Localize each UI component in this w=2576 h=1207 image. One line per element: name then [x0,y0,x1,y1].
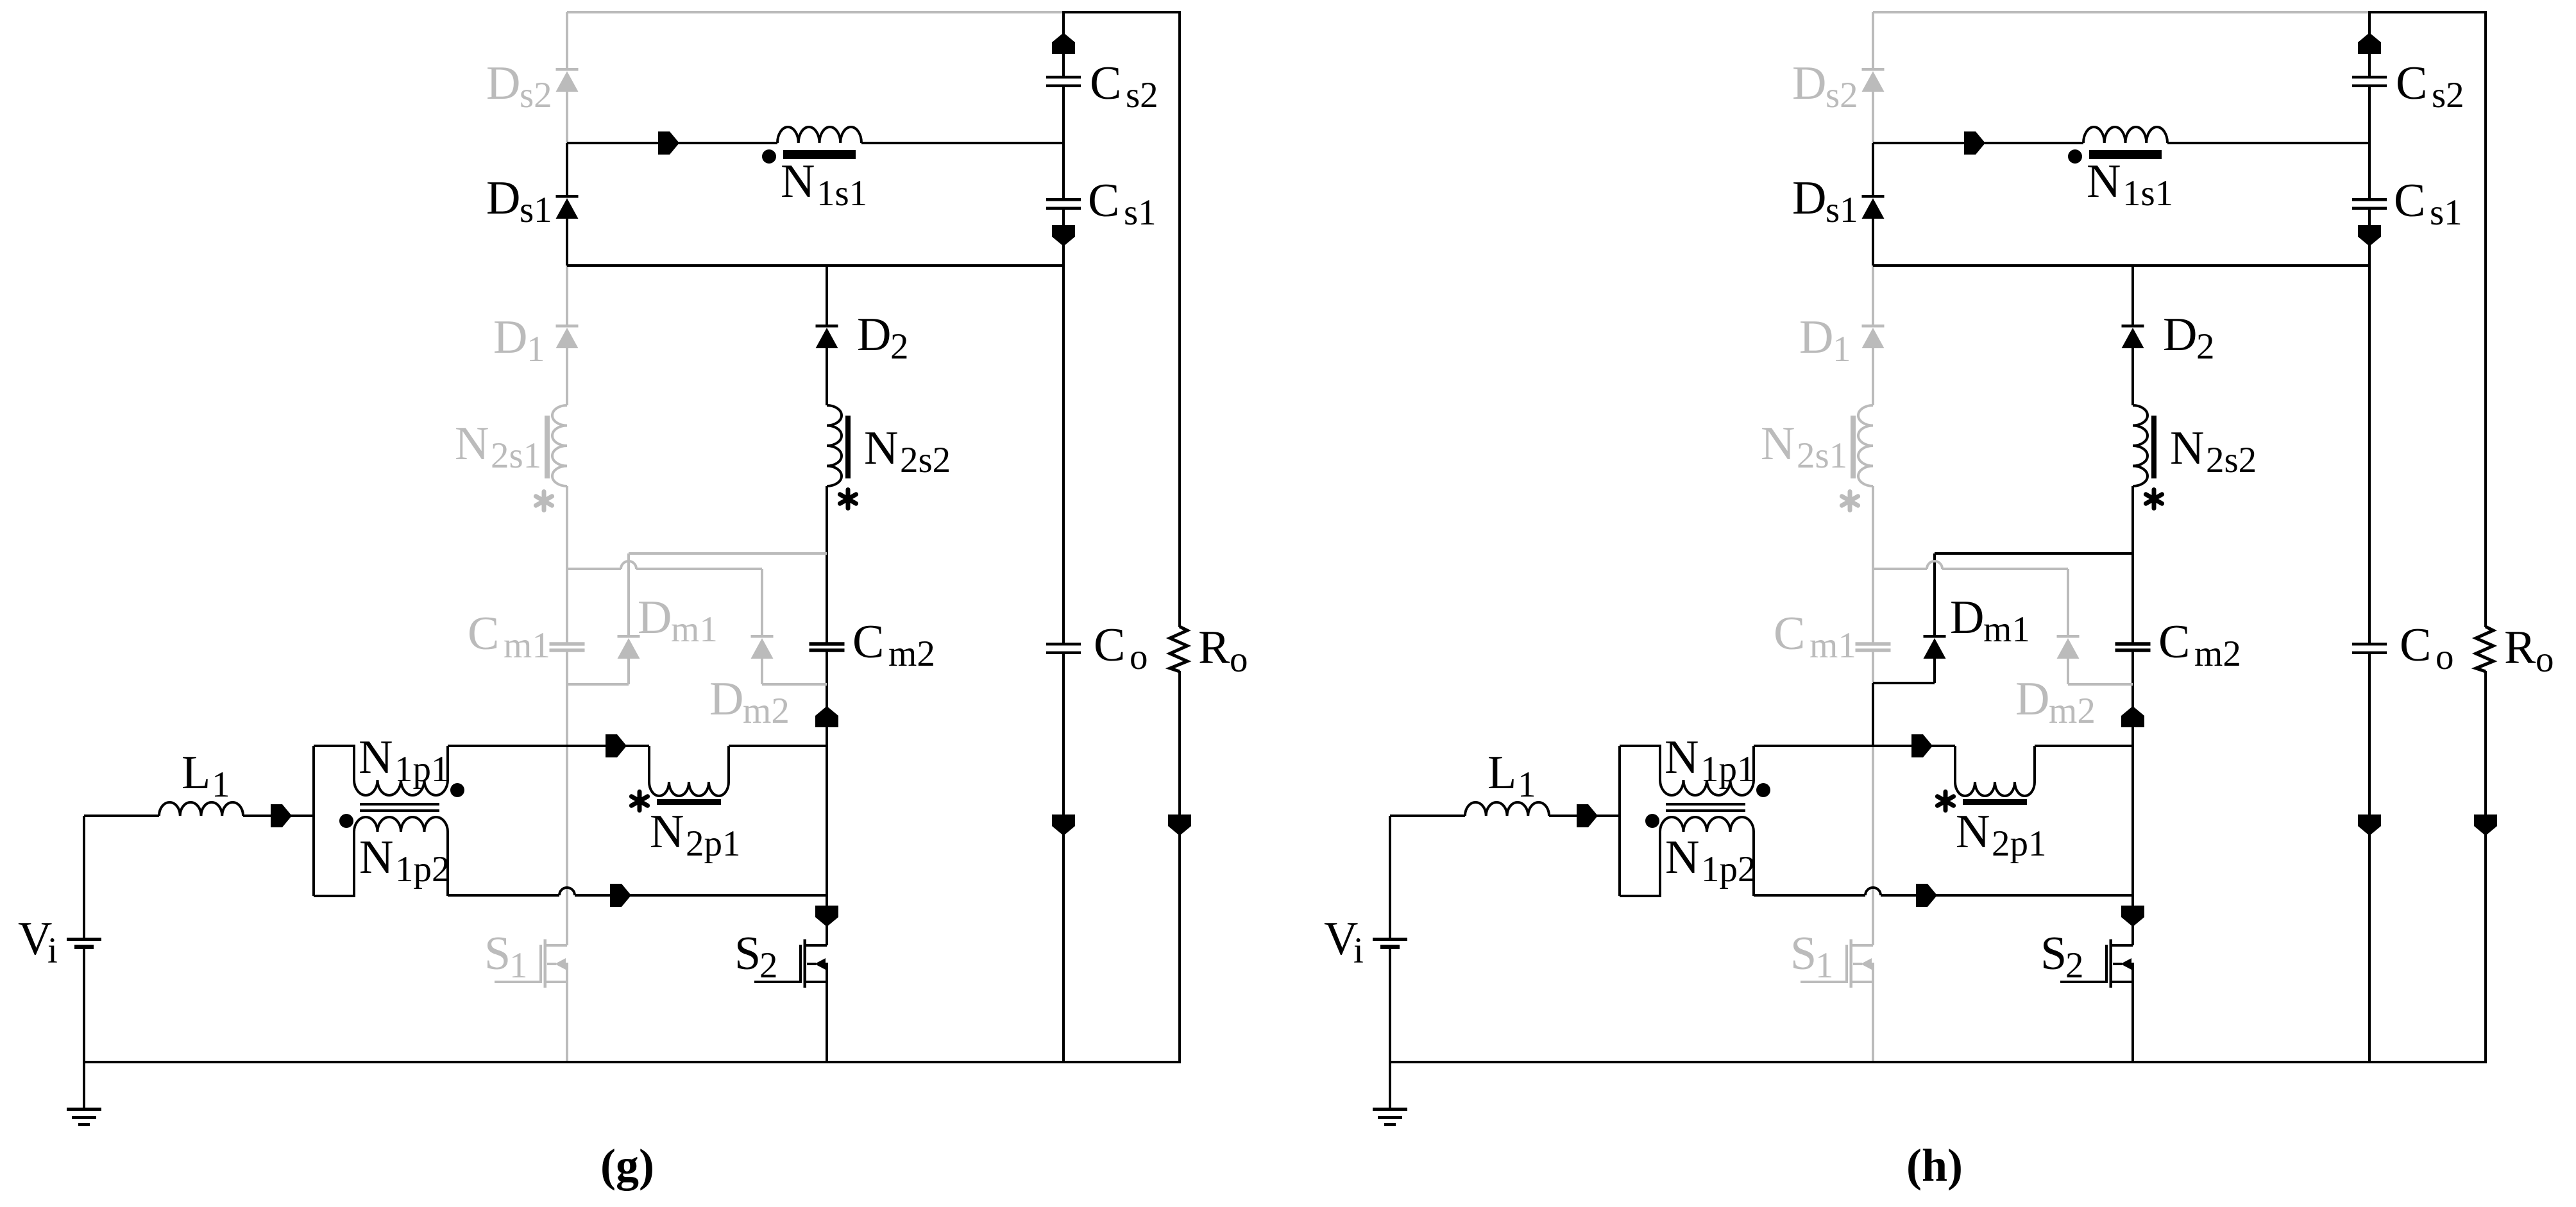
svg-text:D: D [1792,172,1826,224]
label Cs2 (g) [1090,57,1158,115]
polarity star N2s2 (g) [840,490,856,509]
wire Co to bottom rail (g) [1062,654,1065,1062]
wire D2 to N2s2 (g) [826,348,828,405]
label Co (g) [1094,619,1148,677]
svg-text:D: D [1792,57,1826,110]
wire Dm1 top link (g) [629,552,827,555]
label D1 (g) [493,311,545,369]
wire to ground (h) [1389,1062,1391,1108]
wire Dm1 top link (h) [1935,552,2133,555]
diode Dm1 (g) [618,635,640,659]
wire load column upper (h) [2484,12,2487,627]
svg-text:m1: m1 [1983,609,2030,650]
wire Vi positive (g) [83,816,85,938]
wire secondary top (h) [1873,142,2083,144]
label N1p2 (h) [1665,831,1756,890]
wire Ds1 anode (g) [566,219,568,266]
arrow right on primary top (g) [606,734,627,757]
wire top rail right (g) [1062,11,1181,13]
wire bottom rail (h) [1390,1061,2487,1063]
caption (h) [1906,1140,1963,1191]
svg-text:C: C [1088,174,1119,227]
label N2p1 (h) [1956,806,2047,864]
transformer core (g) [360,803,439,812]
dot N1s1 (h) [2068,149,2082,164]
wire secondary bottom (g) [567,264,1063,267]
wire N2s2 to Cm2 (g) [826,486,828,643]
diode Ds1 (h) [1862,195,1885,219]
svg-text:m1: m1 [1809,625,1856,666]
wire Dm2 anode (h) [2067,659,2069,684]
winding N2p1 (h) [1955,746,2035,805]
diode Ds2 (h) [1862,68,1885,92]
svg-text:i: i [47,931,58,971]
arrow down above S2 (h) [2121,906,2144,927]
svg-text:(g): (g) [600,1140,654,1191]
capacitor Cs1 (g) [1046,198,1081,210]
winding N2s1 (g) [545,405,567,486]
label N1p2 (g) [359,831,450,890]
arrow up into top rail (g) [1052,33,1075,54]
inductor L1 (h) [1465,802,1549,816]
winding N1p1 (h) [1620,746,1754,795]
polarity star N2p1 (g) [631,792,647,811]
svg-text:s1: s1 [520,190,552,230]
diode Ds2 (g) [556,68,579,92]
label L1 (g) [182,747,230,805]
svg-text:2s1: 2s1 [491,435,541,476]
diode D2 (g) [816,325,838,348]
svg-text:N: N [781,155,815,208]
wire Dm1 anode (g) [627,659,630,684]
arrow right into transformer (g) [271,804,292,827]
dot N1p1 (g) [450,783,464,797]
label Dm2 (g) [709,673,790,731]
wire D1 to N2s1 (h) [1872,348,1874,405]
wire Vi positive (h) [1389,816,1391,938]
label Cm1 (g) [468,607,550,666]
wire node B to S2 drain (h) [2131,746,2134,945]
wire S2 source to bottom rail (h) [2131,982,2134,1062]
label Ro (g) [1198,621,1248,680]
label D2 (h) [2163,308,2215,367]
dot N1p1 (h) [1756,783,1770,797]
label Dm1 (h) [1950,591,2030,650]
winding N2s2 (h) [2133,405,2157,486]
svg-text:s1: s1 [2430,192,2462,233]
wire N1s1 to Cs node (h) [2167,142,2369,144]
winding N2s2 (g) [827,405,851,486]
svg-text:C: C [1094,619,1125,671]
svg-text:s1: s1 [1826,190,1858,230]
label N1p1 (g) [359,731,450,789]
diode Dm1 (h) [1924,635,1946,659]
arrow up above node B (h) [2121,706,2144,727]
svg-text:D: D [493,311,527,364]
wire N2s1 to Cm1 (g) [566,486,568,643]
svg-text:C: C [2394,174,2425,227]
arrow right on secondary top (g) [658,131,679,155]
svg-text:m2: m2 [888,634,935,674]
svg-text:S: S [734,927,761,980]
svg-text:1: 1 [1833,329,1851,369]
svg-text:s2: s2 [520,75,552,115]
wire D2 cathode (g) [826,266,828,325]
dot N1s1 (g) [762,149,776,164]
transistor S2 (g) [754,940,827,988]
wire Ds2 to node A (h) [1872,92,1874,143]
wire node A to Ds1 (g) [566,143,568,195]
label N1p1 (h) [1665,731,1756,789]
label S2 (h) [2040,927,2084,986]
polarity star N2s2 (h) [2146,490,2162,509]
wire Cs column mid (g) [1062,87,1065,199]
svg-text:s2: s2 [2432,75,2464,115]
label D2 (g) [857,308,909,367]
svg-text:N: N [359,831,393,884]
wire N2s1 to Cm1 (h) [1872,486,1874,643]
arrow down on load column (h) [2474,815,2497,836]
wire clamp rail (h) [1873,561,2068,569]
wire input node (h) [1390,815,1465,817]
winding N2s1 (h) [1851,405,1873,486]
wire input node (g) [84,815,159,817]
label Cm2 (h) [2158,616,2241,674]
svg-text:S: S [1790,927,1817,980]
label D1 (h) [1799,311,1851,369]
svg-text:m2: m2 [743,691,790,731]
label Dm2 (h) [2015,673,2096,731]
capacitor Cm2 (h) [2115,642,2151,652]
wire Dm2 cathode (g) [761,569,763,635]
svg-text:S: S [2040,927,2067,980]
wire N2s2 to Cm2 (h) [2131,486,2134,643]
label N2s2 (h) [2170,422,2257,480]
svg-text:1p2: 1p2 [1701,849,1756,890]
wire N1p1 to N2p1 (g) [448,745,649,747]
wire Cm1 to S1 drain (g) [566,651,568,945]
svg-text:C: C [2400,619,2431,671]
wire Cs column lower (g) [1062,210,1065,643]
label Ds2 (g) [486,57,552,115]
wire load column upper (g) [1178,12,1181,627]
wire Cm1 to S1 drain (h) [1872,651,1874,945]
svg-text:o: o [2536,639,2554,680]
label Ds1 (g) [486,172,552,230]
wire bottom rail (g) [84,1061,1181,1063]
arrow down above output node (g) [1052,815,1075,836]
arrow down above S2 (g) [815,906,838,927]
label Cs2 (h) [2396,57,2464,115]
label Ds1 (h) [1792,172,1858,230]
wire secondary top (g) [567,142,777,144]
svg-text:2p1: 2p1 [686,823,741,864]
svg-text:m1: m1 [671,609,718,650]
svg-text:D: D [1950,591,1984,644]
wire node B to S2 drain (g) [826,746,828,945]
diode D1 (g) [556,325,579,348]
svg-text:2: 2 [759,945,778,986]
arrow right on primary top (h) [1911,734,1933,757]
label N2s1 (g) [455,418,541,476]
svg-text:1: 1 [212,764,230,805]
capacitor Co (g) [1046,643,1081,654]
svg-text:C: C [852,616,884,668]
label Dm1 (g) [638,591,718,650]
wire S2 source to bottom rail (g) [826,982,828,1062]
arrow right on primary bottom (g) [610,884,631,907]
wire load column lower (g) [1178,671,1181,1062]
svg-text:C: C [2158,616,2190,668]
svg-text:C: C [468,607,499,660]
svg-text:D: D [1799,311,1833,364]
wire Dm1 cathode (g) [627,553,630,635]
inductor L1 (g) [159,802,243,816]
dot N1p2 (g) [339,814,353,828]
polarity star N2p1 (h) [1937,792,1953,811]
wire D2 cathode (h) [2131,266,2134,325]
label N1s1 (h) [2087,155,2173,214]
label Cm1 (h) [1774,607,1856,666]
svg-text:C: C [2396,57,2427,110]
wire Dm2 anode to Cm2 (h) [2068,683,2133,686]
label Co (h) [2400,619,2454,677]
svg-text:1: 1 [1518,764,1536,805]
svg-text:o: o [1230,639,1248,680]
svg-text:R: R [1198,621,1230,674]
wire Cs column upper (g) [1062,12,1065,76]
label Vi (g) [18,913,58,971]
winding N1p2 (h) [1620,817,1754,896]
svg-text:R: R [2504,621,2536,674]
svg-text:i: i [1353,931,1364,971]
wire Dm2 anode (g) [761,659,763,684]
arrow right on primary bottom (h) [1916,884,1937,907]
wire Dm1 cathode (h) [1933,553,1936,635]
wire top rail left (h) [1873,11,2369,13]
capacitor Cs2 (h) [2352,76,2387,87]
wire S1 source to bottom rail (h) [1872,982,1874,1062]
svg-text:D: D [857,308,891,361]
label S2 (g) [734,927,778,986]
svg-text:2p1: 2p1 [1992,823,2047,864]
arrow down on load column (g) [1168,815,1191,836]
svg-text:m2: m2 [2049,691,2096,731]
svg-text:s2: s2 [1126,75,1158,115]
wire load column lower (h) [2484,671,2487,1062]
svg-text:C: C [1774,607,1805,660]
arrow right on secondary top (h) [1964,131,1985,155]
svg-text:2s2: 2s2 [900,440,951,480]
label N2p1 (g) [650,806,741,864]
label Cm2 (g) [852,616,935,674]
polarity star N2s1 (g) [536,492,552,511]
winding N1p2 (g) [314,817,448,896]
winding N1s1 (h) [2083,127,2167,159]
wire Ds2 to node A (g) [566,92,568,143]
arrow up above node B (g) [815,706,838,727]
wire Vi negative (g) [83,949,85,1062]
polarity star N2s1 (h) [1842,492,1858,511]
wire Cm2 to node B (g) [826,651,828,746]
wire Cs column lower (h) [2368,210,2371,643]
wire node A to Ds1 (h) [1872,143,1874,195]
winding N1p1 (g) [314,746,448,795]
capacitor Co (h) [2352,643,2387,654]
label Vi (h) [1324,913,1364,971]
wire Dm2 anode to Cm2 (g) [762,683,827,686]
svg-text:s2: s2 [1826,75,1858,115]
svg-text:s1: s1 [1124,192,1157,233]
label N1s1 (g) [781,155,867,214]
resistor Ro (h) [2476,627,2493,671]
svg-text:D: D [2015,673,2049,725]
diode D1 (h) [1862,325,1885,348]
label Ro (h) [2504,621,2554,680]
caption (g) [600,1140,654,1191]
arrow right into transformer (h) [1577,804,1598,827]
transformer core (h) [1666,803,1745,812]
svg-text:N: N [1665,831,1699,884]
svg-text:D: D [709,673,743,725]
diode D2 (h) [2122,325,2144,348]
wire N1p2 to S2 (g) [448,888,827,895]
svg-text:2: 2 [2196,326,2215,367]
svg-text:N: N [2170,422,2204,475]
arrow down below Cs1 (h) [2358,225,2381,246]
svg-text:N: N [359,731,393,784]
svg-text:N: N [455,418,489,470]
wire D2 to N2s2 (h) [2131,348,2134,405]
capacitor Cs2 (g) [1046,76,1081,87]
battery Vi (g) [67,938,101,949]
wire N1s1 to Cs node (g) [861,142,1063,144]
ground (g) [67,1108,101,1126]
label S1 (g) [484,927,528,986]
svg-text:1: 1 [509,945,528,986]
wire N1p1 to N2p1 (h) [1754,745,1955,747]
svg-text:N: N [2087,155,2121,208]
wire Cm1 to Dm1 anode (g) [567,683,629,686]
label N2s2 (g) [864,422,951,480]
wire Cs column mid (h) [2368,87,2371,199]
label Cs1 (h) [2394,174,2462,233]
wire Cm2 to node B (h) [2131,651,2134,746]
wire Dm1 anode (h) [1933,659,1936,683]
label S1 (h) [1790,927,1834,986]
diode Dm2 (g) [751,635,774,659]
arrow down below Cs1 (g) [1052,225,1075,246]
wire Ds2 anode (g) [566,12,568,68]
svg-text:2: 2 [2065,945,2084,986]
capacitor Cs1 (h) [2352,198,2387,210]
transistor S1 (h) [1801,940,1873,988]
svg-text:D: D [486,57,520,110]
svg-text:S: S [484,927,511,980]
svg-text:N: N [1956,806,1990,858]
svg-text:1s1: 1s1 [817,173,867,214]
svg-text:D: D [638,591,672,644]
svg-text:1: 1 [1815,945,1834,986]
svg-text:1s1: 1s1 [2123,173,2173,214]
wire Ds2 anode (h) [1872,12,1874,68]
label Ds2 (h) [1792,57,1858,115]
wire N2p1 to node B (g) [729,745,827,747]
wire top rail right (h) [2368,11,2487,13]
wire S1 source to bottom rail (g) [566,982,568,1062]
svg-text:m2: m2 [2194,634,2241,674]
svg-text:(h): (h) [1906,1140,1963,1191]
wire Co to bottom rail (h) [2368,654,2371,1062]
wire Dm1 anode to column A (h) [1873,682,1935,684]
ground (h) [1373,1108,1407,1126]
diode Ds1 (g) [556,195,579,219]
label Cs1 (g) [1088,174,1157,233]
svg-text:2: 2 [890,326,909,367]
diode Dm2 (h) [2057,635,2080,659]
wire down to primary node (h) [1872,683,1874,746]
capacitor Cm2 (g) [809,642,845,652]
svg-text:D: D [2163,308,2197,361]
arrow up into top rail (h) [2358,33,2381,54]
capacitor Cm1 (g) [550,642,585,652]
dot N1p2 (h) [1645,814,1659,828]
wire Vi negative (h) [1389,949,1391,1062]
svg-text:N: N [864,422,898,475]
label N2s1 (h) [1761,418,1847,476]
wire top rail left (g) [567,11,1063,13]
wire Ds1 anode to D1 (h) [1872,266,1874,325]
wire clamp rail (g) [567,561,762,569]
svg-text:1p1: 1p1 [394,749,450,789]
wire Ds1 anode (h) [1872,219,1874,266]
resistor Ro (g) [1170,627,1187,671]
svg-text:L: L [182,747,210,799]
svg-text:L: L [1487,747,1516,799]
transistor S2 (h) [2060,940,2133,988]
wire D1 to N2s1 (g) [566,348,568,405]
svg-text:N: N [1761,418,1795,470]
svg-text:2s1: 2s1 [1797,435,1847,476]
capacitor Cm1 (h) [1856,642,1891,652]
svg-text:m1: m1 [504,625,550,666]
svg-text:D: D [486,172,520,224]
svg-text:N: N [1665,731,1699,784]
transformer input bar (g) [312,746,315,896]
svg-text:1p2: 1p2 [395,849,450,890]
winding N1s1 (g) [777,127,861,159]
svg-text:1p1: 1p1 [1700,749,1756,789]
wire Ds1 anode to D1 (g) [566,266,568,325]
wire L1 to transformer (g) [243,815,314,817]
wire N1p2 to S2 (h) [1754,888,2133,895]
wire secondary bottom (h) [1873,264,2369,267]
arrow down above output node (h) [2358,815,2381,836]
transformer input bar (h) [1618,746,1621,896]
svg-text:N: N [650,806,684,858]
wire Cs column upper (h) [2368,12,2371,76]
winding N2p1 (g) [649,746,729,805]
svg-text:o: o [1130,637,1148,677]
svg-text:o: o [2436,637,2454,677]
label L1 (h) [1487,747,1536,805]
wire Dm2 cathode (h) [2067,569,2069,635]
svg-text:C: C [1090,57,1121,110]
transistor S1 (g) [495,940,567,988]
wire to ground (g) [83,1062,85,1108]
wire L1 to transformer (h) [1549,815,1620,817]
svg-text:2s2: 2s2 [2206,440,2257,480]
